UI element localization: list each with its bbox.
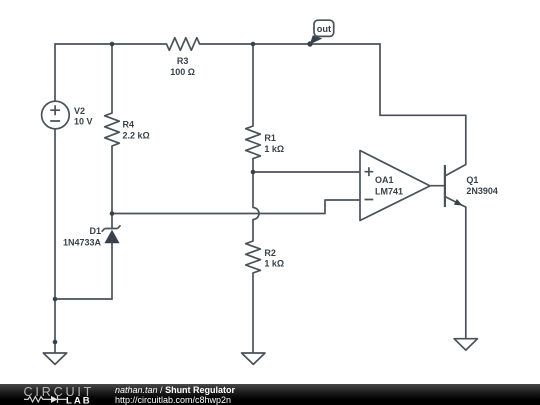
svg-text:V2: V2 (74, 106, 85, 116)
node junction D1 top (110, 211, 115, 216)
node junction above ground (53, 340, 58, 345)
wire D1 bottom lead (111, 243, 113, 299)
ground right (454, 339, 477, 350)
svg-text:R4: R4 (123, 120, 135, 130)
node junction bottom left (53, 297, 58, 302)
wire R1 bottom lead (252, 159, 254, 172)
footer bar (0, 384, 540, 405)
net flag out (310, 20, 334, 44)
wire horizontal to collector column (380, 114, 466, 116)
svg-text:R1: R1 (264, 133, 276, 143)
svg-text:OA1: OA1 (375, 175, 394, 185)
wire op-amp plus input (253, 171, 360, 173)
wire collector column (465, 115, 467, 164)
wire V2 top lead (54, 44, 56, 101)
svg-text:LAB: LAB (66, 395, 92, 405)
wire V2 bottom to ground (54, 129, 56, 353)
svg-text:2.2 kΩ: 2.2 kΩ (123, 131, 150, 141)
resistor R2 label (264, 248, 284, 269)
wire bottom-left horizontal (55, 298, 112, 300)
voltage source V2 label (74, 106, 93, 127)
node junction R4 top (110, 42, 115, 47)
resistor R3 label (170, 56, 195, 77)
resistor R4 label (123, 120, 150, 141)
voltage source V2 (42, 101, 70, 129)
svg-text:R2: R2 (264, 248, 276, 258)
transistor Q1 (445, 165, 466, 208)
op-amp OA1 label (375, 175, 403, 197)
wire R1 top lead (252, 44, 254, 126)
zener diode D1 (102, 214, 121, 244)
wire Q1 emitter lead (465, 207, 467, 339)
ground left (43, 353, 66, 364)
wire top rail right (200, 43, 380, 45)
resistor R1 label (264, 133, 284, 154)
ground middle (242, 353, 265, 364)
resistor R3 (167, 38, 200, 51)
resistor R2 (246, 241, 261, 273)
wire R4 top lead (111, 44, 113, 113)
svg-text:100 Ω: 100 Ω (170, 67, 195, 77)
wire R1 to R2 with hop (253, 172, 259, 241)
resistor R1 (246, 126, 261, 159)
node junction R1 top (251, 42, 256, 47)
CircuitLab logo (0, 384, 100, 405)
wire R4 bottom lead (111, 146, 113, 214)
footer title text (115, 386, 235, 405)
svg-text:1 kΩ: 1 kΩ (264, 144, 284, 154)
wire op-amp output to base (430, 185, 445, 187)
svg-text:D1: D1 (89, 226, 101, 236)
wire op-amp minus input (112, 200, 360, 214)
wire R2 bottom lead (252, 273, 254, 353)
node junction plus input (251, 170, 256, 175)
svg-text:1 kΩ: 1 kΩ (264, 259, 284, 269)
zener diode D1 label (63, 226, 102, 248)
svg-text:Q1: Q1 (466, 175, 478, 185)
node out (307, 41, 312, 46)
svg-text:10 V: 10 V (74, 117, 93, 127)
resistor R4 (105, 113, 120, 146)
wire out-to-collector down segment (379, 44, 381, 115)
svg-text:1N4733A: 1N4733A (63, 238, 102, 248)
op-amp OA1 (360, 151, 430, 221)
svg-text:R3: R3 (177, 56, 189, 66)
svg-text:out: out (317, 24, 331, 34)
svg-text:LM741: LM741 (375, 186, 403, 196)
wire top rail left (55, 43, 167, 45)
transistor Q1 label (466, 175, 498, 196)
svg-text:2N3904: 2N3904 (466, 186, 498, 196)
